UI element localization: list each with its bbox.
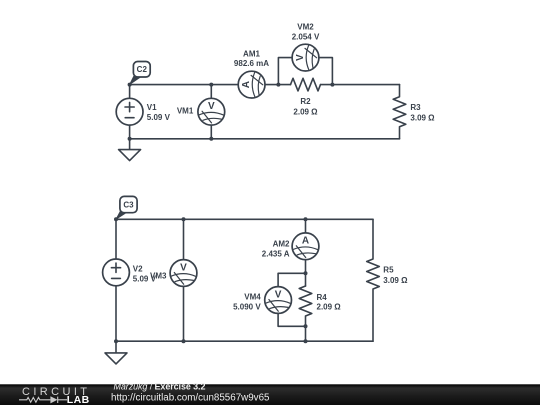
resistor R5 (367, 219, 380, 341)
wire VM4 loop (278, 273, 305, 326)
node at C3 flag (114, 217, 118, 221)
svg-text:R2: R2 (300, 97, 311, 106)
svg-text:A: A (302, 236, 309, 247)
wire V2 branch (115, 219, 117, 341)
svg-text:2.09 Ω: 2.09 Ω (293, 107, 318, 116)
voltage source V1 (116, 98, 143, 125)
svg-text:C2: C2 (137, 65, 148, 74)
voltmeter VM4 (265, 287, 292, 314)
ammeter AM2 (292, 233, 319, 260)
node VM3 bottom (182, 339, 186, 343)
svg-text:3.09 Ω: 3.09 Ω (410, 113, 435, 122)
svg-text:V: V (180, 262, 187, 273)
node after R2 (330, 83, 334, 87)
wire VM1 branch (210, 85, 212, 139)
svg-text:C3: C3 (123, 200, 134, 209)
node VM1 top (209, 83, 213, 87)
logo schematic line with resistor and diode (19, 397, 67, 403)
voltmeter VM2 (292, 44, 319, 71)
voltage source V2 (103, 259, 130, 286)
svg-text:V: V (275, 289, 282, 300)
node VM1 bottom (209, 137, 213, 141)
svg-text:R3: R3 (410, 103, 421, 112)
svg-text:2.09 Ω: 2.09 Ω (317, 303, 342, 312)
wire V1 branch (129, 85, 131, 139)
ammeter AM1 (238, 71, 265, 98)
svg-text:2.054 V: 2.054 V (292, 33, 320, 42)
wire top rail of lower circuit (116, 218, 373, 220)
node AM2 top (304, 217, 308, 221)
wire AM2 branch top (305, 219, 307, 286)
svg-text:R4: R4 (317, 293, 328, 302)
svg-text:VM1: VM1 (177, 107, 194, 116)
node V2 bottom (114, 339, 118, 343)
svg-text:V1: V1 (147, 103, 157, 112)
svg-text:V: V (295, 54, 306, 61)
svg-text:Marzukg / Exercise 3.2: Marzukg / Exercise 3.2 (114, 382, 206, 392)
node R4/VM4 bottom (304, 324, 308, 328)
ground (upper circuit) (129, 139, 131, 150)
svg-text:2.435 A: 2.435 A (262, 250, 290, 259)
resistor R4 (299, 286, 312, 341)
wire VM2 loop (278, 58, 332, 85)
svg-text:AM2: AM2 (273, 239, 290, 248)
wire bottom rail of lower circuit (116, 340, 373, 342)
node V1 bottom (128, 137, 132, 141)
wire bottom rail of upper circuit (130, 138, 400, 140)
node AM2/R4 junction (304, 271, 308, 275)
wire VM3 branch (183, 219, 185, 341)
svg-text:LAB: LAB (67, 394, 90, 405)
resistor R3 (393, 85, 406, 139)
resistor R2 (291, 78, 321, 91)
svg-text:V: V (208, 101, 215, 112)
svg-text:AM1: AM1 (243, 49, 260, 58)
svg-text:R5: R5 (383, 265, 394, 274)
svg-text:VM2: VM2 (297, 22, 314, 31)
svg-text:VM4: VM4 (244, 292, 261, 301)
node VM3 top (182, 217, 186, 221)
svg-text:VM3: VM3 (150, 272, 167, 281)
voltmeter VM3 (170, 260, 197, 287)
logo diode triangle (50, 396, 57, 403)
node branch bottom (304, 339, 308, 343)
node flag C2 (130, 74, 140, 85)
wire R2 to R3 corner (321, 84, 400, 86)
node flag C3 (116, 209, 127, 219)
voltmeter VM1 (198, 98, 225, 125)
svg-text:V2: V2 (133, 264, 143, 273)
svg-text:A: A (241, 81, 252, 88)
svg-text:982.6 mA: 982.6 mA (234, 59, 269, 68)
svg-text:http://circuitlab.com/cun85567: http://circuitlab.com/cun85567w9v65 (111, 392, 270, 403)
svg-text:5.09 V: 5.09 V (147, 113, 171, 122)
node after AM1 (276, 83, 280, 87)
wire top rail of upper circuit (130, 84, 291, 86)
svg-text:5.090 V: 5.090 V (233, 303, 261, 312)
svg-text:3.09 Ω: 3.09 Ω (383, 276, 408, 285)
node at C2 flag (128, 83, 132, 87)
ground (lower circuit) (115, 341, 117, 353)
